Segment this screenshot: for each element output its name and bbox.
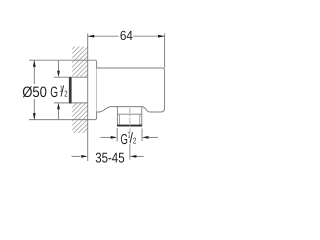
escutcheon Ø50 bottom edge / extension line: [29, 119, 95, 121]
dimension Ø50: [22, 60, 47, 119]
svg-text:1: 1: [128, 130, 131, 140]
wall hatch: [60, 7, 110, 179]
outlet thread G1/2: [117, 107, 141, 126]
svg-text:35-45: 35-45: [95, 150, 124, 166]
label G1/2 left: [50, 83, 67, 101]
wall face line: [87, 33, 89, 161]
escutcheon front face: [95, 60, 97, 119]
dimension 35-45: [72, 150, 144, 166]
dimension G1/2 bottom: [100, 128, 158, 148]
svg-text:64: 64: [120, 28, 133, 43]
escutcheon Ø50 top edge / extension line: [29, 59, 95, 61]
body outline: [97, 68, 165, 112]
svg-text:2: 2: [64, 89, 68, 99]
dimension 64: [88, 28, 165, 68]
svg-text:Ø50: Ø50: [22, 84, 47, 101]
svg-text:G: G: [50, 84, 58, 101]
svg-text:2: 2: [133, 136, 137, 146]
outlet thread end face: [117, 125, 142, 127]
supply pipe G1/2 white cutout: [69, 77, 88, 103]
supply pipe G1/2: [54, 77, 88, 103]
centerline of outlet: [129, 108, 131, 160]
dimension G1/2 left arrows: [57, 61, 60, 119]
